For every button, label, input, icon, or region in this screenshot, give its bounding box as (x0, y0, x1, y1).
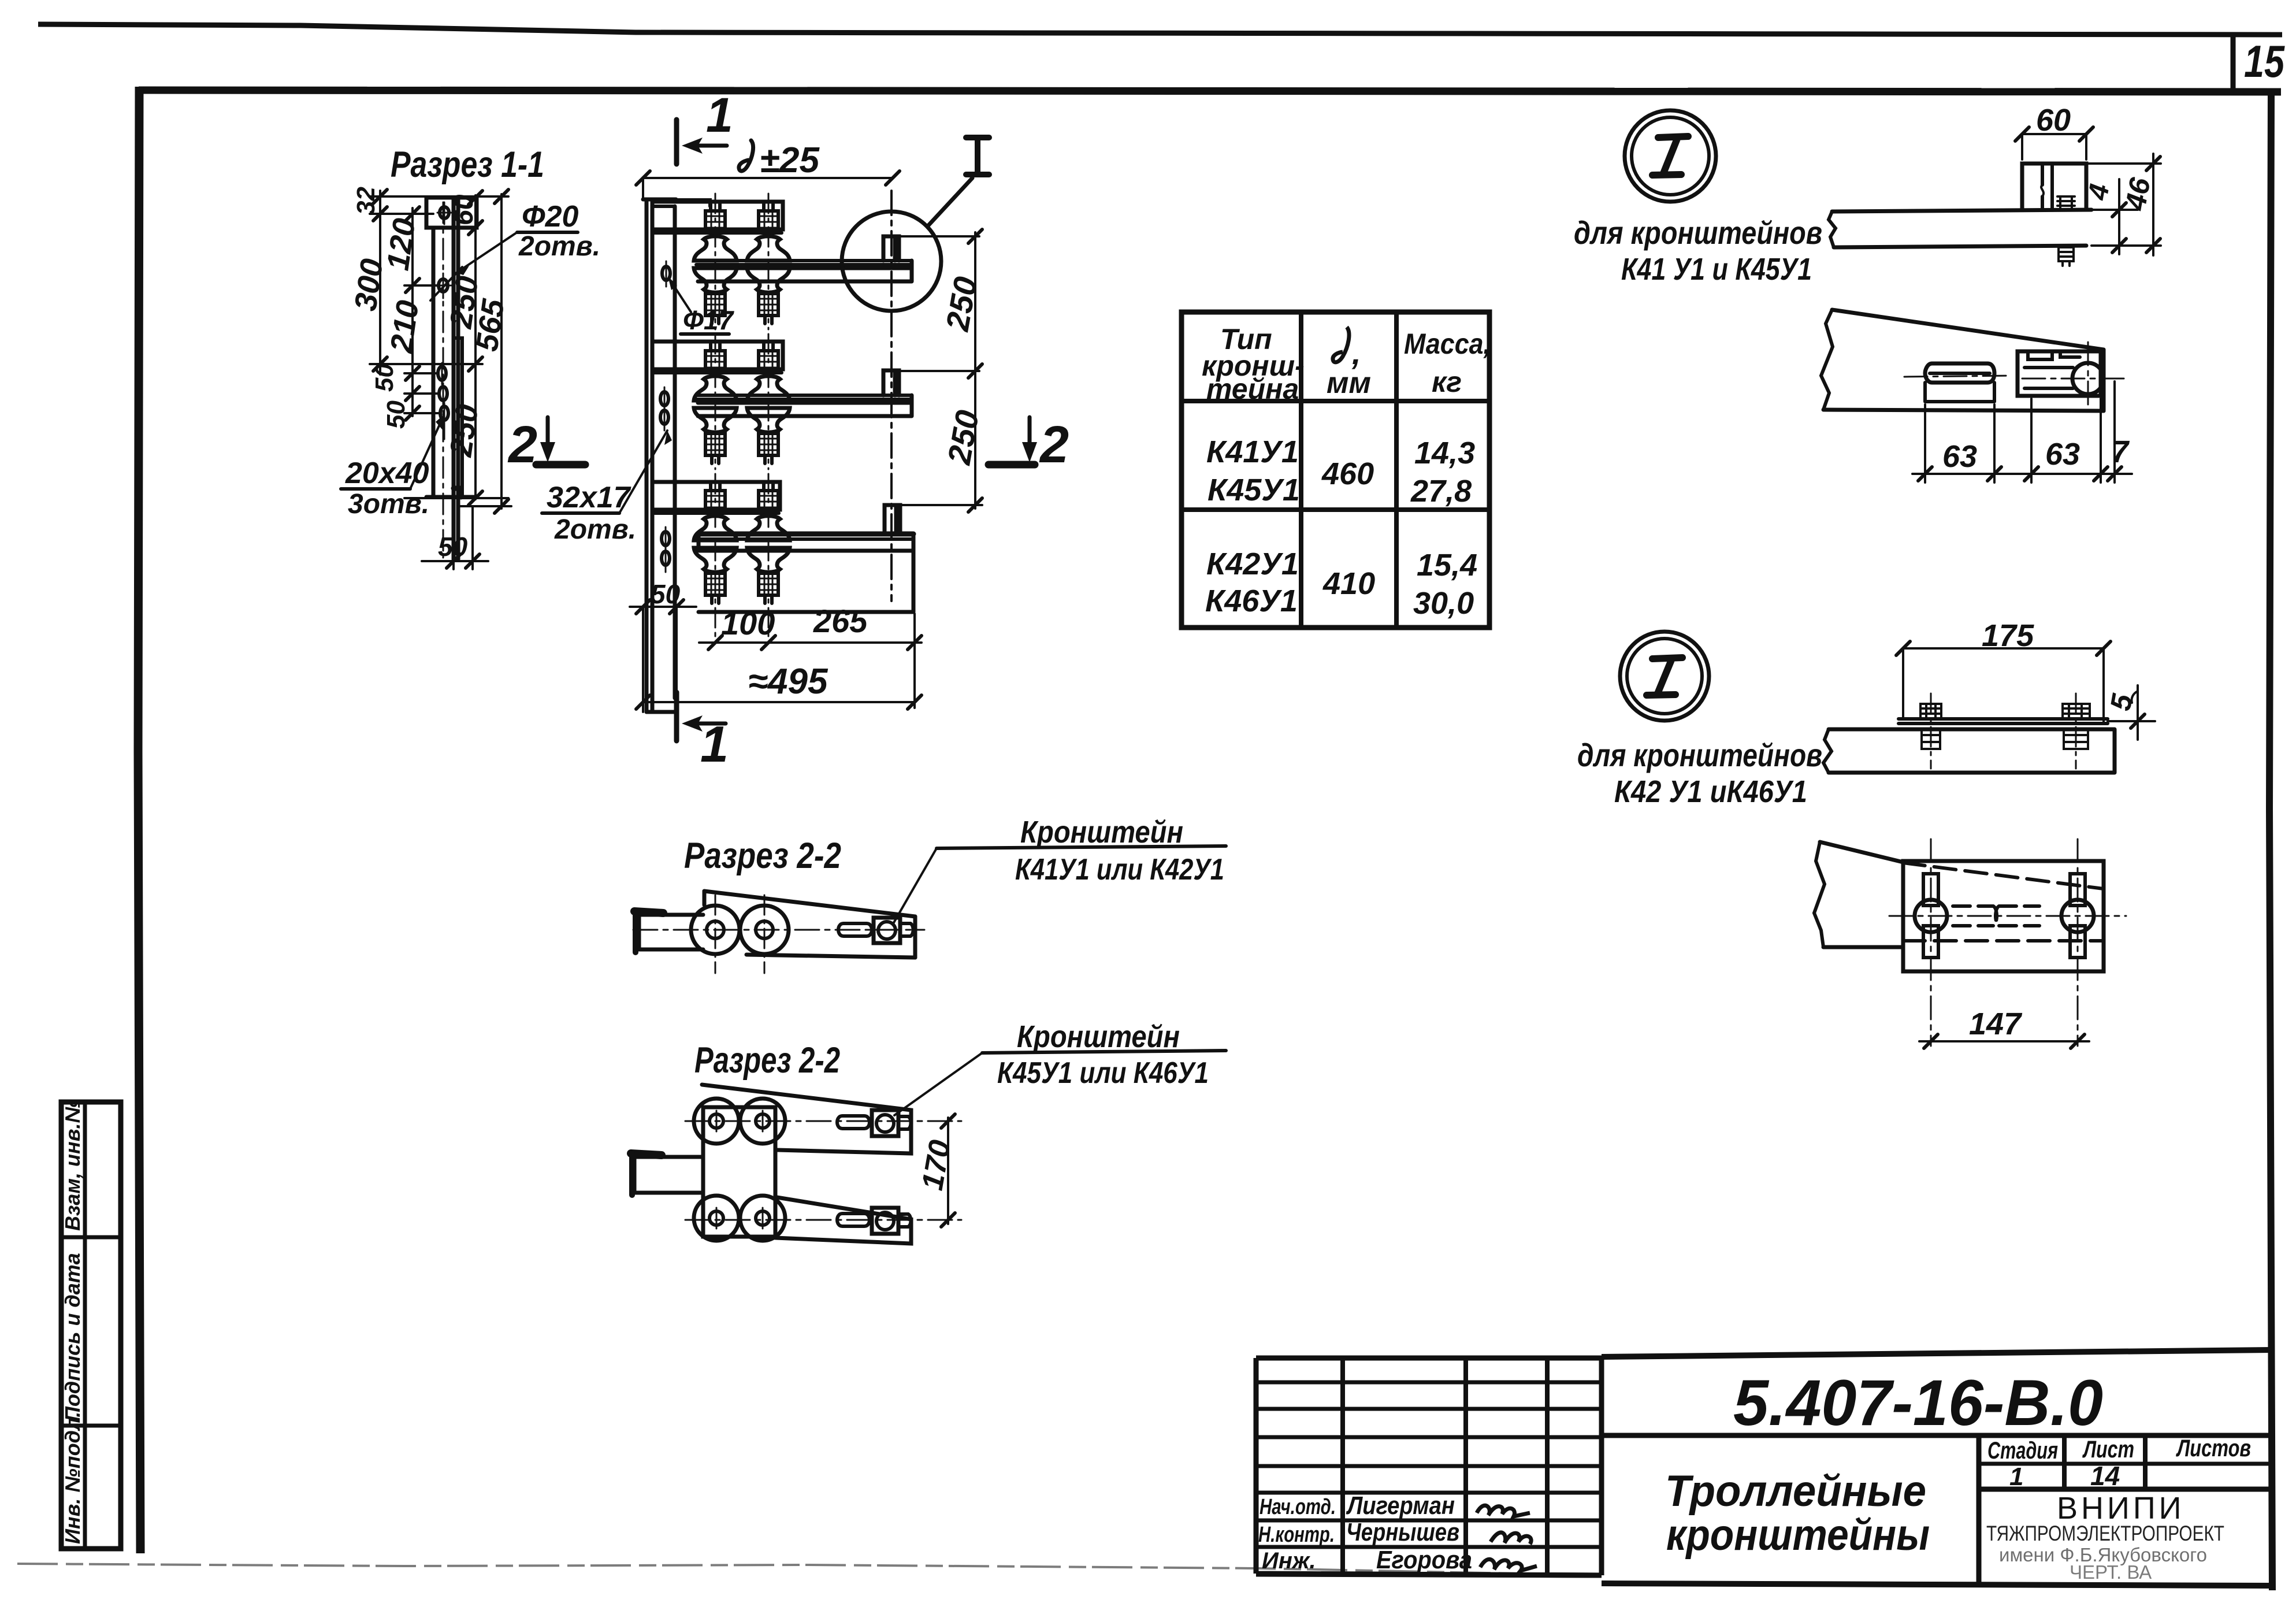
side bar left break (1829, 212, 1836, 247)
signature 2 (1491, 1533, 1531, 1544)
arm 1 under plate line (655, 231, 782, 235)
detail leader to I (927, 178, 972, 227)
svg-text:мм: мм (1327, 366, 1371, 400)
trolley bar 2 end tab (883, 370, 899, 395)
bolt left (1920, 704, 1941, 719)
extension line mid (370, 363, 482, 365)
svg-text:63: 63 (2045, 437, 2080, 472)
insulators arm3 (694, 484, 737, 540)
wall holes 32x17 arm3 (662, 532, 670, 546)
roller circle 2 (740, 906, 789, 954)
extension line 565 bottom (458, 505, 511, 507)
plan wedge right tip (2102, 350, 2106, 411)
extension line hole b (404, 392, 439, 395)
svg-text:Разрез 2-2: Разрез 2-2 (694, 1040, 840, 1081)
stadia header row line (1979, 1462, 2271, 1466)
svg-text:50: 50 (370, 363, 399, 392)
plate bar top (1899, 719, 2108, 723)
channel bottom edge (426, 495, 475, 499)
svg-text:ТЯЖПРОМЭЛЕКТРОПРОЕКТ: ТЯЖПРОМЭЛЕКТРОПРОЕКТ (1986, 1522, 2224, 1545)
trolley bar 2 body (698, 395, 912, 416)
svg-text:Егорова: Егорова (1376, 1546, 1472, 1574)
channel small tab upper (454, 338, 462, 342)
slot hole 20x40 c (440, 406, 448, 420)
trolley bar 1 end tab (883, 236, 899, 261)
svg-text:2: 2 (1039, 416, 1069, 474)
nut left under (1922, 729, 1940, 749)
mark 2 bar (536, 461, 585, 469)
svg-text:Взам, инв.№: Взам, инв.№ (61, 1099, 84, 1231)
svg-text:60: 60 (2036, 103, 2071, 138)
leader to clamp (893, 848, 937, 925)
plan wedge top edge (1832, 310, 2104, 350)
wall plate right edge (651, 199, 655, 712)
top wedge slot (837, 1116, 870, 1129)
svg-text:46: 46 (2119, 175, 2157, 213)
plan centerline horizontal (1889, 915, 2126, 917)
label underline (937, 846, 1226, 848)
svg-text:14,3: 14,3 (1414, 436, 1475, 470)
trolley bar 3 end tab (885, 505, 900, 534)
dim 46 (2086, 164, 2161, 246)
wall holes 32x17 arm2 (660, 392, 668, 406)
bolt centerlines (1931, 693, 2076, 769)
clamp box (2022, 164, 2086, 210)
svg-text:К41У1: К41У1 (1206, 435, 1299, 469)
top dim l+-25 (739, 140, 753, 171)
svg-text:Лигерман: Лигерман (1346, 1491, 1455, 1520)
svg-text:К46У1: К46У1 (1205, 584, 1298, 618)
clamp bolt below bar (2059, 247, 2074, 266)
slot hole 20x40 b (439, 387, 447, 400)
leader phi20 (456, 232, 517, 273)
left bar (634, 1157, 702, 1193)
svg-text:кронштейны: кронштейны (1666, 1511, 1930, 1560)
stadia box verticals (2064, 1435, 2145, 1489)
svg-text:К42 У1 иК46У1: К42 У1 иК46У1 (1614, 774, 1807, 809)
clamp bolt above (2057, 196, 2075, 210)
svg-text:15: 15 (2244, 36, 2285, 87)
roller pin 1 (707, 921, 724, 938)
svg-text:для кронштейнов: для кронштейнов (1574, 214, 1822, 251)
svg-text:Троллейные: Троллейные (1665, 1467, 1926, 1516)
wall hole 32x17 arm1 (662, 266, 670, 280)
left signature table outer (1256, 1358, 1602, 1575)
stamp column divider 1 (61, 1235, 121, 1240)
svg-text:3отв.: 3отв. (348, 489, 429, 520)
svg-text:27,8: 27,8 (1410, 474, 1472, 509)
plan wedge left break (1821, 310, 1833, 410)
stadia row bottom line (1979, 1487, 2271, 1492)
svg-text:60: 60 (448, 194, 479, 225)
mark 2 arrow (546, 417, 550, 445)
svg-text:1: 1 (706, 88, 733, 142)
plan clamp notch (2028, 351, 2080, 359)
svg-text:К41 У1 и К45У1: К41 У1 и К45У1 (1621, 252, 1812, 287)
signature table rows (1256, 1382, 1602, 1547)
svg-text:≈495: ≈495 (748, 662, 829, 702)
svg-text:Лист: Лист (2082, 1435, 2134, 1463)
svg-text:14: 14 (2090, 1461, 2120, 1491)
label underline (982, 1051, 1226, 1053)
stamp column outer box (61, 1102, 121, 1549)
svg-text:147: 147 (1969, 1007, 2023, 1041)
dim line 565 vertical (500, 194, 503, 509)
flange hole phi20 (440, 207, 449, 218)
extension line hole c (404, 412, 440, 414)
wedge left edge stub (703, 891, 707, 905)
svg-text:265: 265 (813, 603, 868, 639)
title block bottom line (1256, 1574, 1602, 1575)
signature 3 (1480, 1559, 1537, 1571)
svg-text:50: 50 (382, 400, 410, 429)
svg-text:120: 120 (380, 216, 422, 273)
main centerline (633, 929, 924, 931)
svg-text:Разрез 2-2: Разрез 2-2 (684, 836, 841, 876)
bottom wedge clamp (872, 1208, 898, 1234)
svg-text:Листов: Листов (2176, 1434, 2251, 1461)
svg-text:Инв. №подл.: Инв. №подл. (61, 1412, 84, 1544)
insulator centerlines (715, 194, 768, 641)
clamp inner lines (2042, 164, 2052, 210)
signature 1 (1477, 1505, 1530, 1516)
drawing frame top (139, 90, 2281, 92)
extension line bottom profile (404, 497, 508, 499)
plan wedge bottom edge (1823, 410, 2104, 411)
extension line hole2 (404, 284, 439, 287)
channel lower right line (460, 342, 464, 497)
bottom wedge (775, 1197, 911, 1244)
beam left break (1823, 729, 1831, 773)
bottom wedge slot (837, 1214, 870, 1226)
detail circle I (842, 212, 941, 311)
nut right under (2064, 729, 2088, 749)
svg-text:К45У1 или К46У1: К45У1 или К46У1 (997, 1056, 1209, 1090)
clamp circle (878, 922, 896, 939)
svg-text:Ф20: Ф20 (522, 200, 579, 233)
svg-text:Ф17: Ф17 (683, 305, 734, 335)
scan bottom rough line (17, 1564, 1600, 1575)
wall channel inner edge (673, 206, 677, 698)
hole phi20 second (439, 279, 448, 292)
svg-text:565: 565 (469, 296, 511, 354)
main centerline of bar ends (890, 191, 893, 601)
svg-text:ВНИПИ: ВНИПИ (2057, 1491, 2184, 1526)
plan slot centerlines (1931, 839, 2078, 1046)
svg-text:Кронштейн: Кронштейн (1020, 815, 1183, 849)
plan dashed bottom (1903, 939, 2104, 943)
trolley bar 3 top lines (699, 532, 913, 537)
plan clamp plate (2018, 351, 2101, 396)
stamp column divider vertical (83, 1102, 87, 1549)
dim line 32-300 vertical (379, 191, 381, 374)
side bar top line (1832, 210, 2091, 212)
ticks right dims (469, 190, 508, 513)
scan top edge line (38, 24, 2282, 35)
wedge body top edge (704, 891, 915, 917)
channel small tab lower (454, 488, 461, 497)
wall top step plate (652, 200, 710, 206)
leader to clamp (894, 1053, 982, 1115)
svg-text:15,4: 15,4 (1417, 548, 1477, 582)
svg-text:410: 410 (1322, 566, 1375, 601)
detail label I (966, 138, 989, 175)
left bar end cap (631, 1153, 662, 1155)
plan slot lug (1925, 363, 1994, 383)
leader 20x40 (410, 421, 441, 489)
stamp column divider 2 (61, 1424, 121, 1428)
svg-text:7: 7 (2111, 435, 2130, 469)
dim line 60-250-250 vertical (474, 195, 477, 499)
roller centerlines (715, 895, 764, 973)
arm 3 channel (652, 482, 780, 510)
plan hidden slot dashes (1953, 906, 2039, 926)
top wedge clamp (872, 1110, 898, 1136)
svg-text:63: 63 (1942, 439, 1977, 474)
plan dashed diagonal (1903, 863, 2104, 889)
big designation box top (1602, 1350, 2271, 1357)
slot (838, 923, 872, 936)
svg-text:460: 460 (1321, 457, 1374, 491)
arm 2 under plate line (655, 371, 782, 374)
svg-text:Чернышев: Чернышев (1346, 1518, 1459, 1546)
stadia box left edge (1977, 1435, 1982, 1585)
plan dims 63 63 7 (1925, 381, 2115, 483)
plan slot lug base (1925, 373, 1994, 402)
phi17 leader arrow (670, 280, 691, 312)
centerline bottom row (685, 1219, 961, 1221)
svg-text:50: 50 (438, 532, 468, 562)
wedge body bottom edge (746, 955, 915, 958)
bolt right (2063, 704, 2090, 719)
table outer box (1182, 312, 1489, 628)
svg-text:5.407-16-В.0: 5.407-16-В.0 (1733, 1367, 2103, 1439)
table column line 1 (1299, 312, 1303, 628)
svg-text:100: 100 (721, 605, 775, 641)
rollers behind plate (694, 1099, 739, 1144)
svg-text:кг: кг (1432, 366, 1462, 398)
dim 170 (947, 1118, 949, 1224)
drawing frame right (2269, 92, 2272, 1590)
svg-text:тейна: тейна (1206, 373, 1299, 405)
clamp side tab (900, 923, 913, 936)
extension line top (370, 195, 508, 198)
svg-text:,: , (1351, 335, 1361, 371)
bottom dim 50 (454, 497, 473, 569)
trolley bar 1 body (698, 261, 912, 281)
dim 4 (2091, 209, 2138, 211)
plan plate (1903, 861, 2104, 971)
table header row line (1182, 399, 1489, 403)
svg-text:Разрез 1-1: Разрез 1-1 (391, 144, 544, 185)
svg-text:Инж.: Инж. (1262, 1548, 1316, 1574)
plate holes (709, 1114, 723, 1128)
extension line 32 (370, 213, 433, 215)
plan slot left (1923, 874, 1938, 906)
svg-text:Подпись и дата: Подпись и дата (61, 1253, 84, 1422)
channel top flange box (426, 198, 477, 228)
dim 5 right (2108, 720, 2155, 722)
trolley bar 3 body (699, 534, 913, 612)
svg-text:Кронштейн: Кронштейн (1017, 1019, 1180, 1054)
signature table verticals (1343, 1358, 1547, 1575)
table column line 2 (1394, 312, 1399, 628)
clamp break squiggle (2041, 185, 2044, 196)
plan centerline clamp vertical (2087, 342, 2089, 411)
svg-text:32х17: 32х17 (547, 481, 631, 514)
insulators arm2 (694, 344, 737, 400)
svg-text:ЧЕРТ. ВА: ЧЕРТ. ВА (2070, 1561, 2152, 1583)
svg-text:К41У1 или К42У1: К41У1 или К42У1 (1015, 853, 1224, 886)
leader 32x17 (619, 431, 667, 513)
arm 3 under plate line (655, 511, 779, 515)
ticks left dims (373, 190, 419, 420)
svg-text:Масса,: Масса, (1404, 328, 1491, 360)
svg-text:К42У1: К42У1 (1206, 547, 1299, 581)
right dim 250 250 (899, 236, 982, 505)
beam under plate (1829, 729, 2115, 773)
arm 2 channel (652, 342, 783, 369)
svg-text:2отв.: 2отв. (554, 514, 636, 545)
svg-text:±25: ±25 (760, 140, 820, 180)
arm 1 channel (652, 202, 783, 229)
svg-text:32: 32 (352, 187, 380, 215)
top wedge (702, 1085, 911, 1153)
svg-text:1: 1 (2009, 1463, 2023, 1491)
wall top cap (643, 198, 676, 202)
plan clamp inner lines (2024, 368, 2073, 388)
svg-text:Нач.отд.: Нач.отд. (1260, 1495, 1336, 1519)
sheet number box line (2231, 33, 2236, 92)
plan clamp circle (2072, 363, 2104, 394)
wedge body right edge (913, 917, 917, 958)
slot hole 20x40 a (438, 366, 446, 380)
side bar bottom line (1834, 246, 2086, 247)
wall bottom (647, 710, 675, 714)
left bar (639, 915, 703, 949)
trolley bar 2 strip (696, 395, 912, 399)
svg-text:30,0: 30,0 (1413, 586, 1474, 621)
drawing frame left (138, 87, 140, 1553)
left bar end cap (634, 911, 663, 913)
svg-text:К45У1: К45У1 (1208, 473, 1300, 507)
hole vertical ticks (716, 1111, 763, 1229)
clamp square (874, 918, 900, 943)
table row line (1182, 507, 1489, 512)
svg-text:Н.контр.: Н.контр. (1258, 1523, 1335, 1547)
plate (703, 1107, 775, 1237)
plan slot right (2070, 874, 2085, 906)
svg-text:для кронштейнов: для кронштейнов (1577, 737, 1822, 773)
holes centerline (443, 202, 444, 558)
roller circle 1 (691, 906, 740, 954)
channel web left line (432, 228, 436, 497)
wall plate left edge (645, 199, 649, 712)
plan beam break left (1820, 842, 1903, 862)
svg-text:2отв.: 2отв. (518, 231, 600, 262)
plan centerline horizontal (1904, 376, 2124, 379)
trolley bar 1 strip (696, 261, 912, 265)
svg-text:210: 210 (384, 298, 425, 355)
svg-text:250: 250 (443, 402, 485, 459)
extension line hole a (404, 372, 438, 374)
header l mm (1333, 327, 1349, 362)
channel web double line (454, 198, 458, 559)
insulators arm1 (694, 204, 737, 261)
section mark 1 bottom (674, 692, 679, 741)
centerline top row (685, 1120, 961, 1122)
roller pin 2 (756, 921, 773, 938)
svg-text:Стадия: Стадия (1987, 1437, 2058, 1464)
dim line 120-210 vertical (411, 208, 414, 416)
left margin stamp column (61, 1099, 121, 1549)
detail circle mark I (1625, 110, 1716, 202)
divider under designation (1602, 1433, 2271, 1438)
svg-text:50: 50 (651, 579, 681, 609)
detail circle mark I (1620, 632, 1709, 721)
svg-text:1: 1 (700, 715, 729, 773)
section mark 2 left (507, 416, 585, 474)
